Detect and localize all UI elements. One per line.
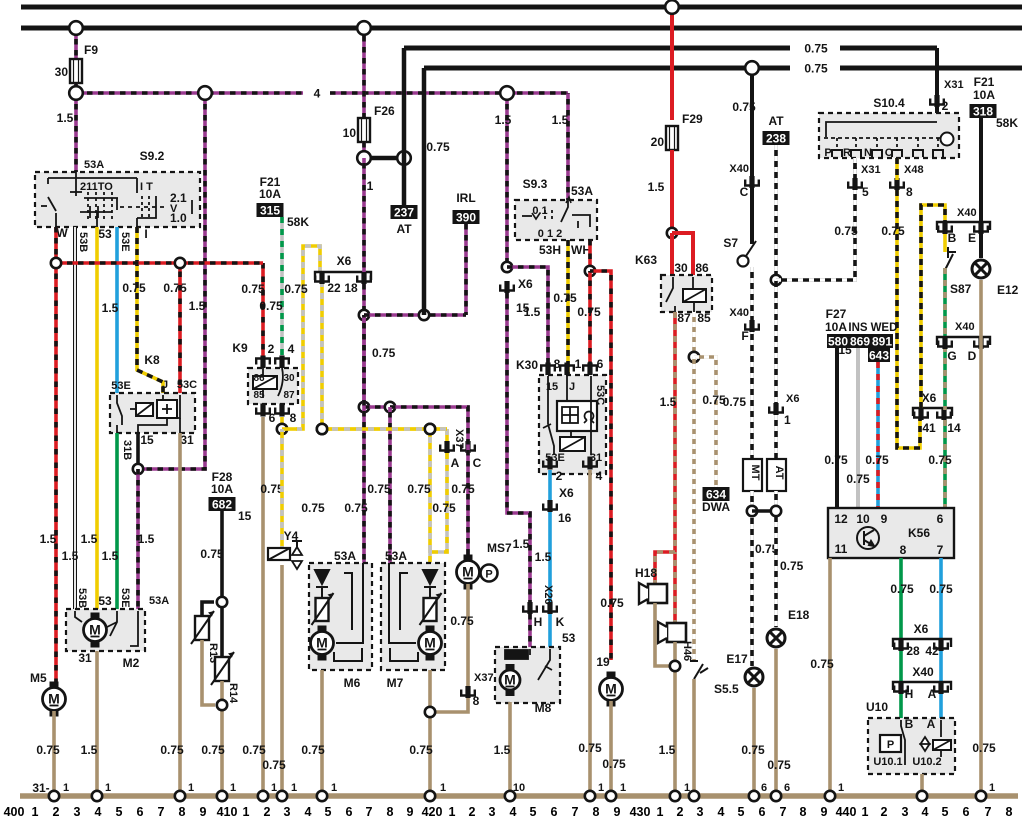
svg-text:8: 8 — [800, 805, 807, 819]
node 53A x205 — [198, 86, 212, 100]
bus node M19 — [606, 791, 616, 801]
svg-text:2: 2 — [942, 99, 949, 113]
svg-text:237: 237 — [394, 206, 414, 220]
bracket X6 28/42 — [893, 639, 951, 647]
switch S5.5 — [690, 661, 708, 679]
motor M7 symbol — [419, 626, 442, 661]
svg-text:R: R — [843, 147, 851, 159]
bus node M2 — [92, 791, 102, 801]
svg-text:1: 1 — [63, 782, 69, 794]
switch S9.2 box — [35, 172, 200, 227]
svg-text:41: 41 — [922, 421, 936, 435]
pin X40-A — [934, 682, 948, 694]
svg-text:869: 869 — [850, 335, 870, 349]
svg-text:87: 87 — [283, 390, 295, 401]
svg-text:1: 1 — [575, 357, 582, 371]
svg-text:85: 85 — [253, 390, 265, 401]
wire K to M8 blue — [548, 614, 552, 649]
motor M8 box — [495, 647, 560, 703]
svg-text:1.5: 1.5 — [494, 743, 511, 757]
svg-text:0.75: 0.75 — [160, 743, 184, 757]
bracket X6 22/18 — [315, 272, 371, 280]
svg-text:G: G — [947, 349, 956, 363]
svg-text:6: 6 — [269, 411, 276, 425]
pin X40-G — [938, 337, 952, 349]
svg-text:0.75: 0.75 — [881, 224, 905, 238]
node x364 y407 — [359, 402, 369, 412]
svg-text:AT: AT — [768, 114, 784, 128]
wire to R13 — [202, 602, 214, 616]
wire 238 down — [774, 145, 778, 280]
wire 18 down — [362, 284, 366, 315]
wire M7 gnd — [428, 670, 432, 796]
svg-text:A: A — [927, 717, 936, 731]
svg-text:1.5: 1.5 — [189, 299, 206, 313]
svg-text:K63: K63 — [635, 253, 657, 267]
node F9 top — [69, 21, 83, 35]
motor M6 box — [309, 563, 372, 670]
pin X6-16 — [543, 500, 557, 512]
relay K63 box — [661, 275, 712, 312]
svg-text:318: 318 — [973, 105, 993, 119]
node R14 bottom — [217, 700, 227, 710]
bus node U10 — [917, 791, 927, 801]
wire MT down — [750, 491, 754, 666]
wire 14 down — [943, 420, 947, 509]
svg-text:4: 4 — [718, 805, 725, 819]
box 237 — [391, 205, 418, 220]
bus node E12 — [976, 791, 986, 801]
motor M8 symbol — [500, 664, 520, 696]
svg-text:6: 6 — [963, 805, 970, 819]
svg-text:U10.2: U10.2 — [912, 756, 941, 768]
svg-text:10: 10 — [856, 512, 870, 526]
bus line 3 right part — [840, 46, 937, 51]
svg-text:1: 1 — [188, 782, 194, 794]
svg-text:7: 7 — [780, 805, 787, 819]
svg-text:X37: X37 — [474, 672, 494, 684]
node K63 — [667, 228, 677, 238]
node x424 y315 — [419, 310, 429, 320]
pump P circle — [481, 565, 498, 582]
bus line 15 (second) — [21, 26, 1022, 31]
svg-text:8: 8 — [593, 805, 600, 819]
svg-text:S87: S87 — [950, 282, 972, 296]
svg-text:F: F — [741, 329, 748, 343]
svg-text:X37: X37 — [453, 429, 465, 449]
M6 internals — [315, 563, 363, 661]
wire K8-31 brown — [178, 433, 182, 796]
svg-text:1.5: 1.5 — [535, 550, 552, 564]
svg-text:16: 16 — [558, 511, 572, 525]
svg-text:C: C — [473, 456, 482, 470]
wire K9-8 yellow — [280, 417, 284, 429]
wire 53A horizontal 4 — [76, 91, 303, 95]
pin X40-H — [894, 682, 908, 694]
wire R to X31-5b — [853, 158, 857, 180]
svg-text:7: 7 — [366, 805, 373, 819]
splice AT — [767, 459, 786, 491]
wire line4 to X40C — [750, 68, 754, 178]
svg-text:S10.4: S10.4 — [873, 96, 905, 110]
svg-text:M: M — [462, 564, 474, 580]
pin S10.4 x938 — [933, 150, 943, 157]
svg-text:1: 1 — [105, 782, 111, 794]
svg-text:1.5: 1.5 — [102, 301, 119, 315]
wire 318 down — [979, 118, 983, 229]
box 643 — [868, 348, 890, 363]
svg-text:31B: 31B — [121, 440, 133, 460]
svg-text:1.5: 1.5 — [648, 180, 665, 194]
svg-text:X6: X6 — [922, 391, 937, 405]
wire O to X48 — [895, 158, 899, 180]
node F9 bottom — [69, 86, 83, 100]
svg-text:X6: X6 — [914, 622, 929, 636]
svg-text:1.5: 1.5 — [102, 549, 119, 563]
svg-text:A: A — [451, 456, 460, 470]
svg-text:1: 1 — [657, 805, 664, 819]
wire loop stub — [282, 427, 297, 431]
wire M6 gnd — [320, 670, 324, 796]
svg-text:0.75: 0.75 — [553, 291, 577, 305]
svg-text:IRL: IRL — [456, 191, 475, 205]
wire yellow horizontal — [322, 427, 447, 431]
wire C to S7 — [750, 188, 754, 244]
S10.4 internals — [824, 122, 954, 149]
switch S10.4 box — [819, 113, 959, 158]
pin X6-42 — [934, 639, 948, 651]
svg-text:58K: 58K — [287, 215, 309, 229]
svg-text:2: 2 — [881, 805, 888, 819]
wire AT down — [774, 491, 778, 627]
svg-text:15: 15 — [140, 433, 154, 447]
bus line 3 left part — [404, 46, 790, 51]
svg-text:8: 8 — [179, 805, 186, 819]
svg-text:0.75: 0.75 — [259, 299, 283, 313]
bus node Y4 — [277, 791, 287, 801]
svg-text:S7: S7 — [723, 236, 738, 250]
svg-text:0.75: 0.75 — [741, 743, 765, 757]
bus line 30 (top) — [21, 5, 1022, 10]
wire MS7 down — [466, 584, 470, 686]
svg-text:E17: E17 — [726, 652, 748, 666]
fuse F29 — [666, 126, 678, 150]
bracket X40 H/A — [893, 682, 951, 690]
svg-text:891: 891 — [872, 335, 892, 349]
svg-text:2: 2 — [469, 805, 476, 819]
wire Y4 to bus — [280, 565, 284, 796]
svg-text:1: 1 — [367, 179, 374, 193]
wire K8-15 black — [136, 433, 140, 469]
svg-text:42: 42 — [925, 644, 939, 658]
svg-text:1.5: 1.5 — [81, 743, 98, 757]
pin X40-D — [974, 337, 988, 349]
wire A down — [430, 453, 447, 563]
svg-text:M: M — [89, 622, 101, 638]
svg-text:5: 5 — [116, 805, 123, 819]
svg-text:10A: 10A — [973, 88, 995, 102]
svg-text:53A: 53A — [334, 549, 356, 563]
wire F26 to node — [362, 142, 366, 158]
node 237 — [397, 151, 411, 165]
pin S10.4 x837 — [832, 150, 842, 157]
svg-text:1: 1 — [838, 782, 844, 794]
svg-text:E18: E18 — [788, 608, 810, 622]
svg-text:K8: K8 — [144, 353, 160, 367]
K63 internals — [666, 277, 706, 312]
svg-text:S9.3: S9.3 — [523, 177, 548, 191]
S9.2 internals — [41, 172, 192, 227]
svg-text:9: 9 — [821, 805, 828, 819]
fuse F26 — [358, 118, 370, 142]
svg-text:S5.5: S5.5 — [714, 682, 739, 696]
wire I black/yellow — [137, 227, 163, 395]
svg-text:28: 28 — [906, 644, 920, 658]
wire K9-6 brown — [261, 417, 265, 796]
svg-text:1: 1 — [620, 782, 626, 794]
motor M6 symbol — [311, 626, 334, 661]
svg-text:4: 4 — [95, 805, 102, 819]
svg-text:0.75: 0.75 — [846, 472, 870, 486]
svg-text:P: P — [824, 147, 831, 159]
wire 53B white — [73, 227, 77, 611]
current track number scale — [4, 805, 1013, 819]
svg-text:K: K — [556, 615, 565, 629]
bus line 4 right part — [840, 66, 1022, 71]
svg-text:J: J — [569, 381, 575, 393]
pin X48-8 — [890, 178, 904, 190]
resistor R13 — [191, 611, 214, 644]
svg-text:0.75: 0.75 — [804, 42, 828, 56]
wire WH to node — [588, 240, 592, 271]
wire E18 gnd — [774, 649, 778, 796]
svg-text:31-: 31- — [32, 781, 49, 795]
wire K63-86 jog — [672, 233, 693, 277]
pin K9-2 — [256, 356, 270, 369]
svg-text:M: M — [504, 672, 516, 688]
pin K30-4 — [583, 457, 597, 470]
wire S5.5 down — [692, 679, 696, 796]
svg-text:9: 9 — [881, 512, 888, 526]
wire H18 down — [655, 603, 675, 666]
wire U10 gnd — [920, 774, 924, 796]
svg-text:X31: X31 — [861, 164, 881, 176]
svg-text:10A: 10A — [259, 187, 281, 201]
svg-text:1: 1 — [449, 805, 456, 819]
bus node M5 — [49, 791, 59, 801]
pin S10.4 x918 — [913, 150, 923, 157]
svg-text:M: M — [605, 681, 617, 697]
motor heater M x611 — [600, 672, 623, 707]
svg-text:O: O — [885, 147, 894, 159]
svg-text:1: 1 — [32, 805, 39, 819]
svg-text:K56: K56 — [908, 526, 930, 540]
svg-text:2: 2 — [268, 342, 275, 356]
wire 238 down2 — [774, 280, 778, 404]
svg-text:J: J — [162, 379, 168, 391]
svg-text:0.75: 0.75 — [301, 501, 325, 515]
pin X6-22 — [315, 272, 329, 284]
node line4 x752 — [745, 61, 759, 75]
svg-text:14: 14 — [947, 421, 961, 435]
svg-text:H18: H18 — [635, 566, 657, 580]
svg-text:1: 1 — [598, 782, 604, 794]
wire 53A to S9.3 area — [505, 93, 509, 267]
svg-text:M: M — [48, 691, 60, 707]
svg-text:8: 8 — [290, 411, 297, 425]
wire WH to K30-6 — [588, 271, 592, 375]
svg-text:K9: K9 — [232, 341, 248, 355]
svg-text:0.75: 0.75 — [122, 281, 146, 295]
svg-text:P: P — [485, 569, 492, 581]
box 318 — [970, 104, 997, 119]
wire line15 to F26 — [362, 28, 366, 120]
svg-text:18: 18 — [344, 281, 358, 295]
pin K30-8 — [541, 363, 555, 376]
wire E to E12 — [979, 234, 983, 258]
M7 internals — [389, 563, 437, 661]
wire 30 feed red — [670, 7, 674, 120]
svg-text:M6: M6 — [344, 676, 361, 690]
svg-text:0.75: 0.75 — [578, 741, 602, 755]
motor M5 — [43, 682, 66, 717]
bus line 4 left part — [424, 66, 790, 71]
svg-text:0.75: 0.75 — [972, 741, 996, 755]
wire Y4 feed — [280, 429, 284, 547]
svg-text:53B: 53B — [77, 232, 89, 252]
svg-text:0.75: 0.75 — [928, 453, 952, 467]
svg-text:X26: X26 — [542, 585, 554, 605]
svg-text:643: 643 — [869, 349, 889, 363]
wire K63-30 — [670, 233, 674, 277]
svg-text:58K: 58K — [996, 116, 1018, 130]
svg-text:238: 238 — [766, 132, 786, 146]
svg-text:0.75: 0.75 — [201, 743, 225, 757]
pin K30-1 — [560, 363, 574, 376]
node 53A x507 y93 — [500, 86, 514, 100]
wire yellow horizontal segment — [322, 427, 447, 431]
M8 internals — [505, 649, 552, 680]
svg-text:53A: 53A — [571, 184, 593, 198]
bus node E17 — [749, 791, 759, 801]
svg-text:5: 5 — [530, 805, 537, 819]
resistor M7 — [420, 593, 442, 625]
svg-text:X40: X40 — [912, 665, 934, 679]
svg-text:D: D — [968, 349, 977, 363]
svg-text:1: 1 — [862, 805, 869, 819]
svg-text:53A: 53A — [84, 159, 104, 171]
wire 31B green — [115, 433, 119, 611]
svg-text:211TO: 211TO — [80, 181, 113, 193]
box 315 — [257, 203, 284, 218]
svg-text:3: 3 — [489, 805, 496, 819]
bus node horns — [670, 791, 680, 801]
svg-text:3: 3 — [902, 805, 909, 819]
svg-text:F27: F27 — [826, 307, 847, 321]
ground bus 31 — [20, 793, 1018, 799]
wire red/black horizontal — [56, 261, 263, 265]
svg-text:I: I — [144, 227, 147, 241]
wire y407 to MS7 — [390, 407, 468, 557]
svg-text:15: 15 — [516, 301, 530, 315]
svg-text:15: 15 — [238, 509, 252, 523]
wire F26 to X6-18 — [362, 158, 366, 272]
svg-text:0.75: 0.75 — [344, 501, 368, 515]
svg-text:1: 1 — [440, 782, 446, 794]
svg-text:31: 31 — [180, 433, 194, 447]
wire y407 link — [364, 405, 390, 409]
svg-text:H: H — [905, 687, 914, 701]
wire X37-8 to node — [430, 698, 468, 712]
bus node K56-11 — [825, 791, 835, 801]
motor M7 box — [381, 563, 445, 670]
svg-text:9: 9 — [200, 805, 207, 819]
svg-text:0.75: 0.75 — [301, 743, 325, 757]
wire WH branch — [590, 271, 611, 660]
wire 682 down — [220, 511, 224, 602]
svg-text:K30: K30 — [516, 358, 538, 372]
pin X40-F — [745, 320, 759, 332]
wire x390 down — [388, 407, 392, 563]
svg-text:X6: X6 — [518, 277, 533, 291]
box 238 — [763, 131, 790, 146]
svg-text:0 1 2: 0 1 2 — [538, 228, 562, 240]
svg-text:30: 30 — [55, 65, 69, 79]
switch S9.3 box — [515, 200, 597, 240]
svg-text:6: 6 — [784, 782, 790, 794]
svg-text:31: 31 — [78, 651, 92, 665]
svg-text:AT: AT — [773, 466, 785, 480]
wire 22 down — [320, 284, 324, 429]
pin X37-A — [440, 441, 454, 453]
svg-text:10: 10 — [343, 126, 357, 140]
box 891 — [871, 334, 893, 349]
svg-text:53B: 53B — [76, 588, 88, 608]
svg-text:53C: 53C — [177, 379, 197, 391]
svg-text:8: 8 — [1006, 805, 1013, 819]
wire 869 down grey — [856, 348, 860, 509]
wire 53 yellow — [95, 227, 99, 609]
svg-text:6: 6 — [346, 805, 353, 819]
svg-text:1.5: 1.5 — [81, 532, 98, 546]
svg-text:0.75: 0.75 — [426, 140, 450, 154]
wire R14 down — [220, 681, 224, 796]
motor MS7 — [457, 555, 480, 590]
svg-text:1: 1 — [989, 782, 995, 794]
svg-text:X40: X40 — [729, 163, 749, 175]
svg-text:8: 8 — [473, 694, 480, 708]
K30 internals — [543, 376, 597, 455]
pin K30-6 — [583, 363, 597, 376]
svg-text:6: 6 — [761, 782, 767, 794]
svg-text:53E: 53E — [111, 380, 131, 392]
svg-text:M8: M8 — [535, 701, 552, 715]
pin S10.4 x856 — [851, 150, 861, 157]
wire red/black to K9 — [261, 263, 265, 357]
pin X6-28 — [894, 639, 908, 651]
svg-text:0.75: 0.75 — [450, 614, 474, 628]
svg-text:1: 1 — [271, 782, 277, 794]
svg-text:0.75: 0.75 — [262, 758, 286, 772]
wire X37-A down — [445, 429, 449, 441]
node x322 b — [317, 424, 327, 434]
svg-text:1: 1 — [684, 782, 690, 794]
svg-text:8: 8 — [554, 357, 561, 371]
wire X48-8 down U — [897, 190, 920, 448]
svg-text:315: 315 — [260, 204, 280, 218]
wire M2 to ground bus — [95, 651, 99, 796]
svg-text:M2: M2 — [123, 656, 140, 670]
